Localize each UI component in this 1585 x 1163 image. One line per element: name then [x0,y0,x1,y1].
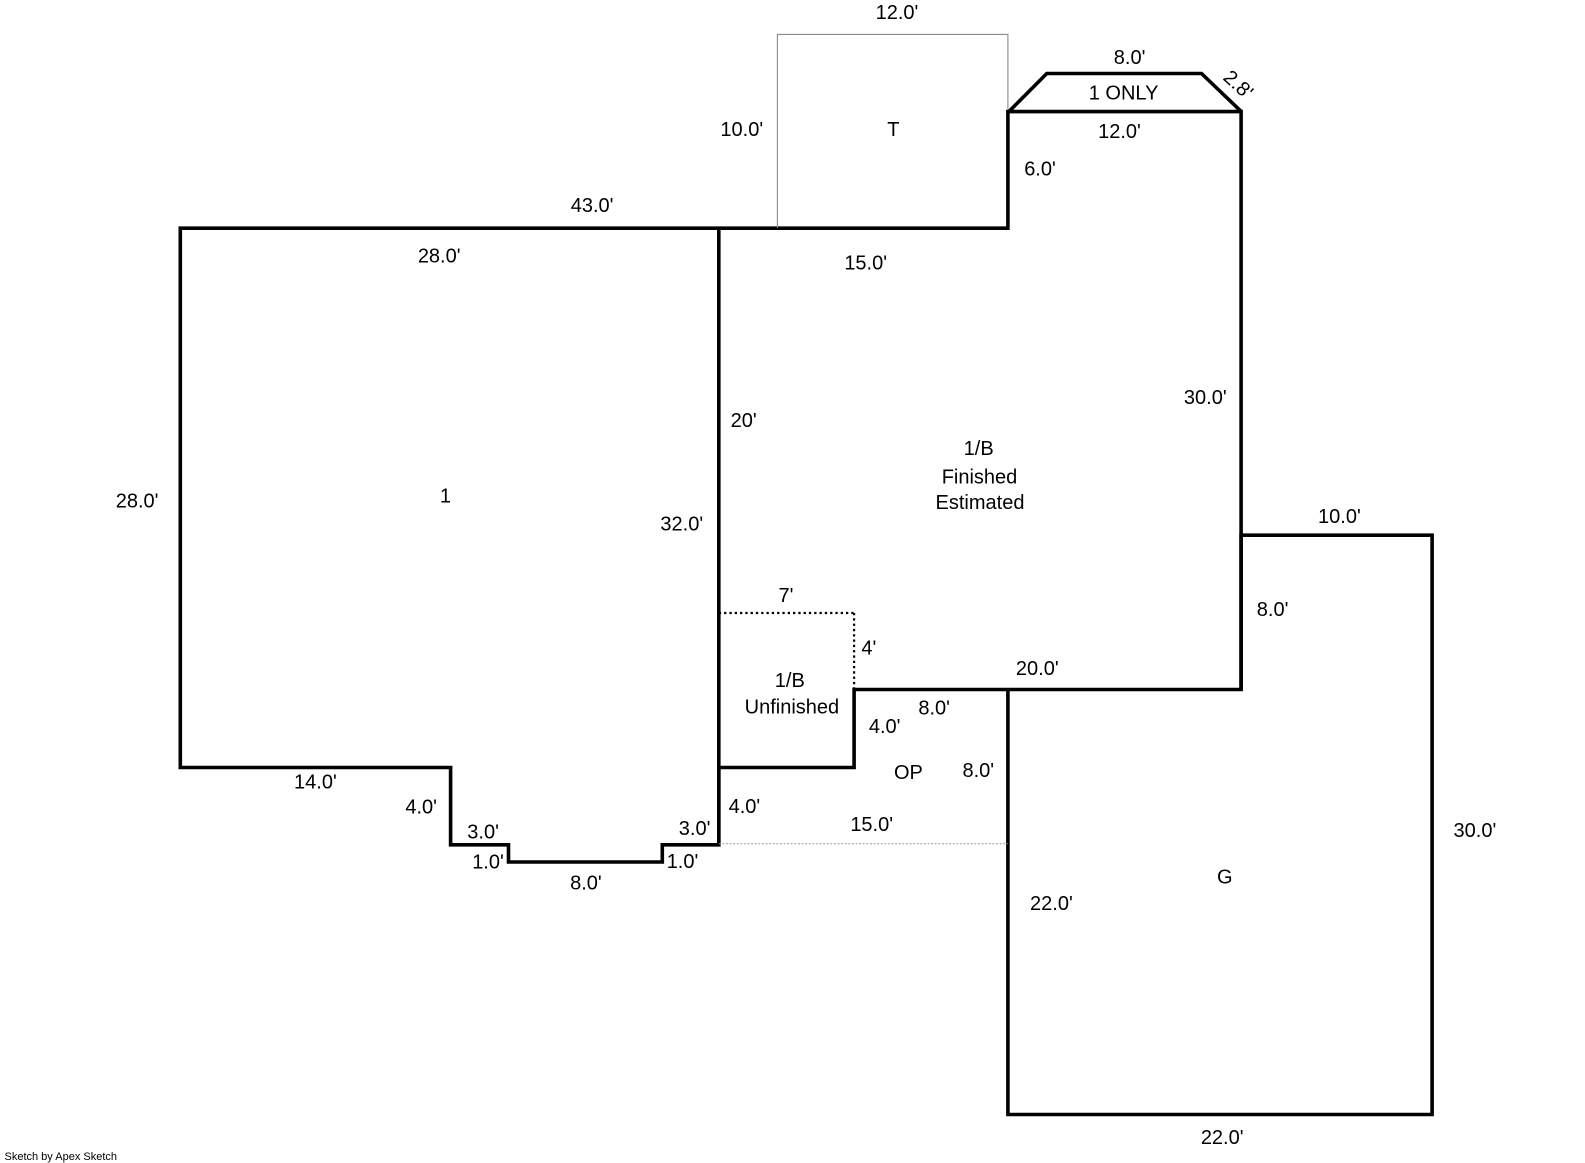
svg-text:4.0': 4.0' [729,796,761,818]
svg-text:8.0': 8.0' [1257,599,1289,621]
svg-text:15.0': 15.0' [850,814,893,836]
svg-text:12.0': 12.0' [876,2,919,24]
svg-text:12.0': 12.0' [1098,121,1141,143]
svg-text:32.0': 32.0' [660,514,703,536]
svg-text:8.0': 8.0' [962,760,994,782]
svg-text:8.0': 8.0' [570,872,602,894]
svg-text:3.0': 3.0' [467,822,499,844]
svg-text:28.0': 28.0' [116,491,159,513]
wire garage G outline [1008,535,1432,1114]
svg-text:28.0': 28.0' [418,246,461,268]
svg-text:4.0': 4.0' [405,796,437,818]
svg-text:20': 20' [731,410,757,432]
svg-text:Unfinished: Unfinished [745,697,840,719]
wire interior wall between area 1 and basement [717,227,721,847]
svg-text:4.0': 4.0' [869,716,901,738]
svg-text:22.0': 22.0' [1030,893,1073,915]
svg-text:43.0': 43.0' [571,195,614,217]
svg-text:30.0': 30.0' [1184,387,1227,409]
svg-text:7': 7' [779,585,794,607]
svg-text:Sketch by Apex Sketch: Sketch by Apex Sketch [5,1151,118,1163]
svg-text:14.0': 14.0' [294,772,337,794]
svg-text:3.0': 3.0' [679,818,711,840]
svg-text:10.0': 10.0' [1318,506,1361,528]
wire 1 ONLY trapezoid [1009,74,1241,112]
svg-text:1.0': 1.0' [472,851,504,873]
svg-text:Finished: Finished [942,467,1018,489]
wire main outer outline of dwelling (area 1 + basement) [180,112,1241,862]
svg-text:1 ONLY: 1 ONLY [1089,82,1159,104]
svg-text:Estimated: Estimated [936,492,1025,514]
svg-text:30.0': 30.0' [1454,820,1497,842]
svg-text:10.0': 10.0' [720,119,763,141]
svg-text:20.0': 20.0' [1016,658,1059,680]
svg-text:8.0': 8.0' [1114,47,1146,69]
svg-text:T: T [887,119,899,141]
wire light dotted OP bottom 15ft [719,843,1008,845]
svg-text:8.0': 8.0' [918,698,950,720]
svg-text:OP: OP [894,762,923,784]
wire dotted basement division 7ft [719,612,854,614]
svg-text:22.0': 22.0' [1201,1127,1244,1149]
svg-text:1/B: 1/B [964,438,994,460]
svg-text:6.0': 6.0' [1024,158,1056,180]
svg-text:4': 4' [861,637,876,659]
svg-text:1.0': 1.0' [667,851,699,873]
svg-text:1/B: 1/B [775,670,805,692]
svg-text:1: 1 [440,486,451,508]
svg-text:G: G [1217,866,1233,888]
wire T porch thin outline [777,34,1008,228]
svg-text:15.0': 15.0' [844,252,887,274]
wire dotted basement division 4ft [853,613,855,690]
